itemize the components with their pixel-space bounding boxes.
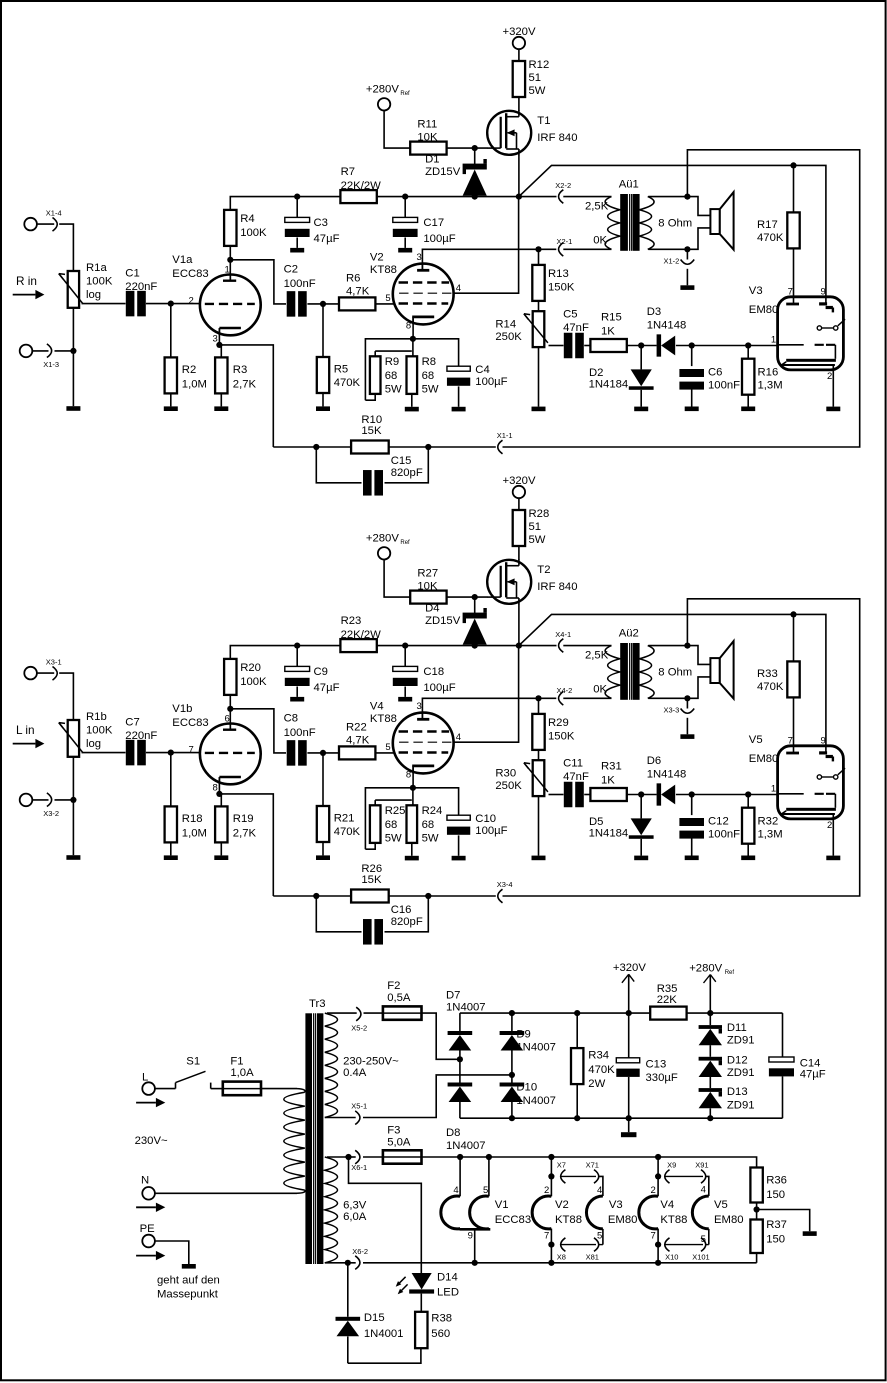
- svg-text:8 Ohm: 8 Ohm: [658, 666, 692, 678]
- wire: [146, 752, 200, 754]
- svg-text:2: 2: [651, 1185, 656, 1196]
- svg-text:7: 7: [788, 735, 793, 746]
- svg-text:EM80: EM80: [749, 304, 779, 316]
- svg-text:D8: D8: [446, 1127, 460, 1139]
- resistor R13: [532, 249, 575, 301]
- wire V3 pin2: [826, 815, 840, 860]
- node C6 tap: [689, 342, 752, 348]
- resistor R8: [405, 356, 439, 412]
- svg-text:F2: F2: [387, 980, 400, 992]
- wire feedback loop: [503, 150, 860, 447]
- node grid1: [168, 750, 174, 756]
- label R in: [13, 274, 45, 299]
- svg-text:V3: V3: [609, 1199, 623, 1211]
- wire: [273, 895, 351, 897]
- transformer Tr3 core: [305, 998, 325, 1264]
- svg-text:4: 4: [597, 1185, 602, 1196]
- svg-text:D15: D15: [364, 1312, 385, 1324]
- svg-text:R38: R38: [431, 1313, 452, 1325]
- svg-text:X7: X7: [557, 1160, 566, 1169]
- capacitor C16: [316, 896, 428, 945]
- svg-text:R19: R19: [233, 813, 254, 825]
- svg-text:T2: T2: [537, 564, 550, 576]
- svg-text:47µF: 47µF: [800, 1068, 826, 1080]
- svg-text:X1-4: X1-4: [46, 209, 62, 218]
- svg-text:100K: 100K: [86, 725, 113, 737]
- resistor R22: [339, 721, 375, 759]
- wire: [375, 303, 394, 305]
- svg-text:X1-1: X1-1: [497, 431, 513, 440]
- svg-text:R33: R33: [757, 668, 778, 680]
- node C6 tap: [689, 791, 752, 797]
- svg-text:IRF 840: IRF 840: [537, 581, 577, 593]
- svg-text:68: 68: [385, 370, 398, 382]
- svg-text:+280V: +280V: [689, 962, 722, 974]
- svg-text:R8: R8: [422, 356, 436, 368]
- svg-text:LED: LED: [437, 1287, 459, 1299]
- svg-text:C3: C3: [314, 217, 328, 229]
- svg-text:N: N: [141, 1174, 149, 1186]
- svg-text:X71: X71: [586, 1160, 599, 1169]
- svg-text:R30: R30: [495, 767, 516, 779]
- resistor R21: [316, 753, 361, 860]
- svg-text:D14: D14: [437, 1271, 458, 1283]
- svg-text:150: 150: [766, 1234, 785, 1246]
- svg-text:D13: D13: [727, 1086, 748, 1098]
- svg-text:100nF: 100nF: [708, 379, 740, 391]
- svg-text:2: 2: [827, 371, 832, 382]
- resistor R28: [513, 508, 550, 546]
- svg-text:1N4184: 1N4184: [589, 828, 629, 840]
- connector X2-1: [557, 237, 573, 256]
- node anode1: [227, 257, 233, 263]
- magic eye V3: [749, 285, 845, 382]
- wire eye drive: [519, 614, 826, 752]
- wire: [549, 345, 564, 347]
- svg-text:1,0M: 1,0M: [182, 378, 207, 390]
- svg-text:R4: R4: [240, 213, 254, 225]
- svg-text:2,5K: 2,5K: [585, 650, 609, 662]
- node heater taps V2: [548, 1173, 554, 1247]
- diode D7: [446, 989, 486, 1059]
- svg-text:Ref: Ref: [400, 540, 410, 546]
- svg-text:ECC83: ECC83: [172, 268, 208, 280]
- svg-text:X3-1: X3-1: [46, 658, 62, 667]
- wire secondary bottom: [648, 677, 710, 698]
- wire: [389, 895, 496, 897]
- svg-text:geht auf den: geht auf den: [157, 1274, 220, 1286]
- svg-text:4,7K: 4,7K: [346, 285, 370, 297]
- svg-text:R34: R34: [588, 1050, 609, 1062]
- resistor R36: [750, 1168, 787, 1203]
- diode D15: [336, 1263, 404, 1363]
- resistor R33: [757, 614, 800, 752]
- connector X5-2: [351, 1007, 367, 1032]
- svg-text:Tr3: Tr3: [309, 998, 326, 1010]
- wire: [229, 246, 231, 280]
- wire: [327, 1156, 349, 1158]
- node C3 tap: [294, 194, 300, 200]
- svg-text:C8: C8: [284, 713, 298, 725]
- node cathode2: [410, 785, 416, 791]
- svg-text:100µF: 100µF: [423, 682, 455, 694]
- transformer Aü2: [585, 628, 692, 700]
- svg-text:8 Ohm: 8 Ohm: [658, 217, 692, 229]
- ground PSU: [621, 1118, 637, 1137]
- wire: [599, 1176, 603, 1196]
- wire B+ rail left: [230, 646, 340, 659]
- node C3 tap: [294, 643, 300, 649]
- svg-text:R in: R in: [16, 274, 37, 288]
- svg-text:R31: R31: [601, 761, 622, 773]
- svg-text:15K: 15K: [361, 874, 382, 886]
- wire heater top rail: [422, 1157, 757, 1168]
- resistor R19: [214, 794, 256, 860]
- capacitor C17: [393, 197, 456, 253]
- wire: [375, 799, 412, 801]
- svg-text:2W: 2W: [588, 1078, 605, 1090]
- svg-text:R12: R12: [529, 59, 550, 71]
- wire to grid V3: [676, 345, 778, 347]
- svg-text:V2: V2: [555, 1199, 569, 1211]
- svg-text:KT88: KT88: [555, 1214, 582, 1226]
- svg-text:C9: C9: [314, 666, 328, 678]
- wire: [307, 752, 338, 754]
- svg-text:22K/2W: 22K/2W: [341, 180, 382, 192]
- wire screen g2: [454, 197, 519, 294]
- svg-text:C2: C2: [284, 264, 298, 276]
- svg-text:V5: V5: [714, 1199, 728, 1211]
- resistor R20: [224, 659, 267, 695]
- wire anode2 0K tap: [422, 249, 556, 269]
- svg-text:150K: 150K: [548, 282, 575, 294]
- svg-text:+280V: +280V: [366, 533, 399, 545]
- wire: [412, 318, 414, 338]
- svg-text:1N4148: 1N4148: [647, 320, 687, 332]
- resistor R18: [164, 753, 207, 860]
- svg-text:KT88: KT88: [660, 1214, 687, 1226]
- svg-text:9: 9: [468, 1230, 473, 1241]
- svg-text:5: 5: [483, 1185, 488, 1196]
- svg-text:R3: R3: [233, 364, 247, 376]
- svg-text:ZD15V: ZD15V: [425, 615, 461, 627]
- wire: [519, 645, 557, 647]
- triode V1b: [172, 703, 260, 794]
- svg-text:ZD91: ZD91: [727, 1099, 755, 1111]
- svg-text:R1a: R1a: [86, 262, 107, 274]
- fuse F1: [223, 1056, 261, 1096]
- svg-text:8: 8: [406, 770, 411, 781]
- resistor R37: [750, 1203, 787, 1263]
- svg-text:1N4001: 1N4001: [364, 1328, 404, 1340]
- svg-text:S1: S1: [186, 1056, 200, 1068]
- svg-text:2: 2: [544, 1185, 549, 1196]
- wire: [325, 1117, 356, 1119]
- node R13 tap: [535, 246, 541, 252]
- node AC1: [457, 1056, 463, 1062]
- svg-text:X4-2: X4-2: [557, 686, 573, 695]
- connector X1-3: [20, 344, 59, 369]
- connector X3-4: [497, 880, 513, 903]
- label L in: [13, 723, 45, 748]
- svg-text:0K: 0K: [593, 234, 607, 246]
- svg-text:1N4007: 1N4007: [446, 1140, 486, 1152]
- wire source: [518, 604, 520, 646]
- svg-text:4: 4: [456, 283, 461, 294]
- svg-text:3: 3: [417, 252, 422, 263]
- connector N: [136, 1174, 165, 1212]
- svg-text:7: 7: [788, 286, 793, 297]
- wire: [374, 800, 376, 805]
- svg-text:68: 68: [422, 370, 435, 382]
- potentiometer R1b: [59, 711, 113, 757]
- svg-text:R5: R5: [334, 364, 348, 376]
- svg-text:V3: V3: [749, 285, 763, 297]
- wire: [146, 303, 200, 305]
- svg-text:X5-1: X5-1: [351, 1102, 367, 1111]
- wire: [72, 308, 74, 406]
- svg-text:D12: D12: [727, 1055, 748, 1067]
- node -rail: [509, 1115, 714, 1121]
- supply +320V arrow: [613, 962, 646, 1013]
- svg-text:D7: D7: [446, 989, 460, 1001]
- wire: [389, 446, 496, 448]
- svg-text:2,5K: 2,5K: [585, 201, 609, 213]
- node fb: [313, 444, 431, 450]
- svg-text:EM80: EM80: [714, 1214, 744, 1226]
- svg-text:1N4007: 1N4007: [516, 1042, 556, 1054]
- wire heater CT ground: [757, 1210, 810, 1232]
- zener diode D1: [425, 148, 487, 196]
- svg-text:C11: C11: [563, 757, 583, 769]
- svg-text:470K: 470K: [757, 232, 784, 244]
- svg-text:EM80: EM80: [608, 1214, 638, 1226]
- connector X1-4: [24, 209, 61, 232]
- wire: [229, 695, 231, 729]
- svg-text:100µF: 100µF: [423, 233, 455, 245]
- svg-text:+280V: +280V: [366, 84, 399, 96]
- heater V3 EM80: [586, 1185, 637, 1245]
- wire: [59, 673, 73, 720]
- label 230-250V: [343, 1056, 399, 1079]
- svg-text:IRF 840: IRF 840: [537, 132, 577, 144]
- diode D9: [500, 1013, 556, 1075]
- svg-text:250K: 250K: [495, 780, 522, 792]
- capacitor C8: [284, 713, 316, 766]
- wire: [374, 351, 376, 356]
- svg-text:1N4007: 1N4007: [446, 1002, 486, 1014]
- wire secondary top: [648, 197, 710, 216]
- svg-text:log: log: [86, 738, 101, 750]
- svg-text:X81: X81: [586, 1252, 599, 1261]
- svg-text:5W: 5W: [422, 383, 439, 395]
- label 230V~: [135, 1135, 168, 1147]
- LED D14: [396, 1271, 459, 1298]
- svg-text:D10: D10: [516, 1081, 537, 1093]
- svg-text:1N4184: 1N4184: [589, 379, 629, 391]
- wire: [375, 752, 394, 754]
- resistor R29: [532, 698, 575, 750]
- capacitor C11: [563, 757, 589, 807]
- potentiometer R14: [495, 301, 548, 411]
- svg-text:V5: V5: [749, 734, 763, 746]
- wire AC2 to bridge: [363, 1075, 512, 1118]
- resistor R34: [571, 1013, 615, 1118]
- triode V1a: [172, 254, 260, 345]
- svg-text:R20: R20: [240, 662, 261, 674]
- svg-text:R29: R29: [548, 717, 569, 729]
- svg-text:R14: R14: [495, 318, 516, 330]
- svg-text:D5: D5: [589, 816, 603, 828]
- wire: [72, 757, 74, 855]
- connector X4-1: [555, 630, 571, 652]
- wire: [211, 1088, 223, 1090]
- node gate: [472, 594, 478, 600]
- node cathode2: [410, 336, 416, 342]
- speaker LS: [710, 192, 733, 250]
- svg-text:47nF: 47nF: [563, 771, 589, 783]
- svg-text:R17: R17: [757, 219, 778, 231]
- wire: [687, 1012, 783, 1014]
- svg-text:10K: 10K: [417, 581, 438, 593]
- svg-text:D6: D6: [647, 755, 661, 767]
- svg-text:5: 5: [385, 742, 390, 753]
- svg-text:230-250V~: 230-250V~: [343, 1056, 399, 1068]
- wire: [518, 97, 520, 111]
- node gate: [472, 145, 478, 151]
- svg-text:X6-2: X6-2: [352, 1247, 368, 1256]
- resistor R2: [164, 304, 207, 411]
- wire: [384, 560, 410, 598]
- node X6-1: [345, 1154, 351, 1160]
- svg-text:C16: C16: [391, 904, 412, 916]
- supply +320V terminal: [503, 475, 536, 498]
- svg-text:X4-1: X4-1: [555, 630, 571, 639]
- wire: [365, 392, 375, 400]
- svg-text:V1b: V1b: [172, 703, 192, 715]
- svg-text:R24: R24: [422, 805, 443, 817]
- svg-text:1K: 1K: [601, 774, 615, 786]
- wire: [82, 752, 126, 754]
- wire B+ rail right: [377, 196, 519, 198]
- wire anode2 0K tap: [422, 698, 556, 718]
- transformer Aü1: [585, 179, 692, 251]
- wire: [412, 788, 414, 806]
- svg-text:51: 51: [529, 521, 542, 533]
- svg-text:R26: R26: [361, 863, 382, 875]
- node C17 tap: [402, 194, 478, 200]
- node R17 tap: [790, 611, 796, 617]
- svg-text:5W: 5W: [422, 832, 439, 844]
- svg-text:F3: F3: [387, 1124, 400, 1136]
- capacitor C6: [679, 346, 740, 412]
- node grid2: [320, 750, 326, 756]
- svg-text:1,0M: 1,0M: [182, 827, 207, 839]
- node grid2: [320, 301, 326, 307]
- node grid1: [168, 301, 174, 307]
- connector X9 X91: [665, 1160, 709, 1183]
- svg-text:X10: X10: [665, 1252, 678, 1261]
- svg-text:R6: R6: [346, 272, 360, 284]
- svg-text:3: 3: [417, 701, 422, 712]
- svg-text:X3-3: X3-3: [664, 705, 680, 714]
- svg-text:51: 51: [529, 72, 542, 84]
- wire: [412, 767, 414, 787]
- node rail: [509, 1010, 632, 1016]
- svg-text:1,3M: 1,3M: [758, 828, 783, 840]
- diode D2: [589, 346, 654, 412]
- wire bridge + rail: [460, 1012, 650, 1014]
- label 6,3V: [343, 1200, 367, 1223]
- potentiometer R30: [495, 750, 548, 860]
- svg-text:T1: T1: [537, 115, 550, 127]
- svg-text:10K: 10K: [417, 132, 438, 144]
- wire V3 pin2: [826, 366, 840, 411]
- capacitor C12: [679, 795, 740, 861]
- svg-text:X3-2: X3-2: [43, 809, 59, 818]
- wire: [518, 49, 520, 61]
- connector X3-2: [20, 793, 59, 818]
- svg-text:F1: F1: [230, 1056, 243, 1068]
- svg-text:7: 7: [651, 1230, 656, 1241]
- resistor R23: [340, 615, 381, 652]
- svg-text:330µF: 330µF: [646, 1072, 678, 1084]
- svg-text:820pF: 820pF: [391, 916, 423, 928]
- wire: [518, 498, 520, 510]
- svg-text:8: 8: [406, 321, 411, 332]
- svg-text:KT88: KT88: [370, 713, 397, 725]
- resistor R27: [410, 567, 446, 603]
- svg-text:X9: X9: [667, 1160, 676, 1169]
- resistor R35: [650, 983, 686, 1020]
- svg-text:PE: PE: [140, 1223, 156, 1235]
- svg-text:4: 4: [701, 1184, 706, 1195]
- capacitor C1: [125, 267, 157, 316]
- wire secondary bottom: [648, 228, 710, 249]
- svg-text:100µF: 100µF: [475, 376, 507, 388]
- connector X4-2: [557, 686, 573, 705]
- svg-text:1: 1: [771, 784, 776, 795]
- node source: [516, 643, 522, 649]
- svg-text:5W: 5W: [385, 383, 402, 395]
- wire gate: [447, 147, 488, 149]
- mosfet T2: [487, 559, 577, 604]
- connector PE: [136, 1223, 165, 1260]
- connector X5-1: [351, 1102, 367, 1125]
- mosfet T1: [487, 110, 577, 155]
- svg-text:X3-4: X3-4: [497, 880, 513, 889]
- svg-text:560: 560: [431, 1328, 450, 1340]
- resistor R31: [590, 761, 626, 801]
- capacitor C3: [285, 197, 340, 253]
- svg-text:C13: C13: [646, 1059, 667, 1071]
- resistor R10: [351, 414, 389, 454]
- resistor R26: [351, 863, 389, 903]
- heater V4 KT88: [639, 1157, 688, 1263]
- wire source: [518, 155, 520, 197]
- capacitor C15: [316, 447, 428, 496]
- svg-text:X2-1: X2-1: [557, 237, 573, 246]
- svg-text:0K: 0K: [593, 683, 607, 695]
- node heater taps V4: [655, 1173, 661, 1247]
- svg-text:C12: C12: [708, 815, 729, 827]
- ground Massepunkt: [157, 1264, 220, 1300]
- svg-text:4: 4: [456, 732, 461, 743]
- capacitor C14: [769, 1013, 826, 1118]
- svg-text:V1a: V1a: [172, 254, 193, 266]
- wire PE to ground: [155, 1241, 189, 1264]
- resistor R32: [741, 795, 782, 861]
